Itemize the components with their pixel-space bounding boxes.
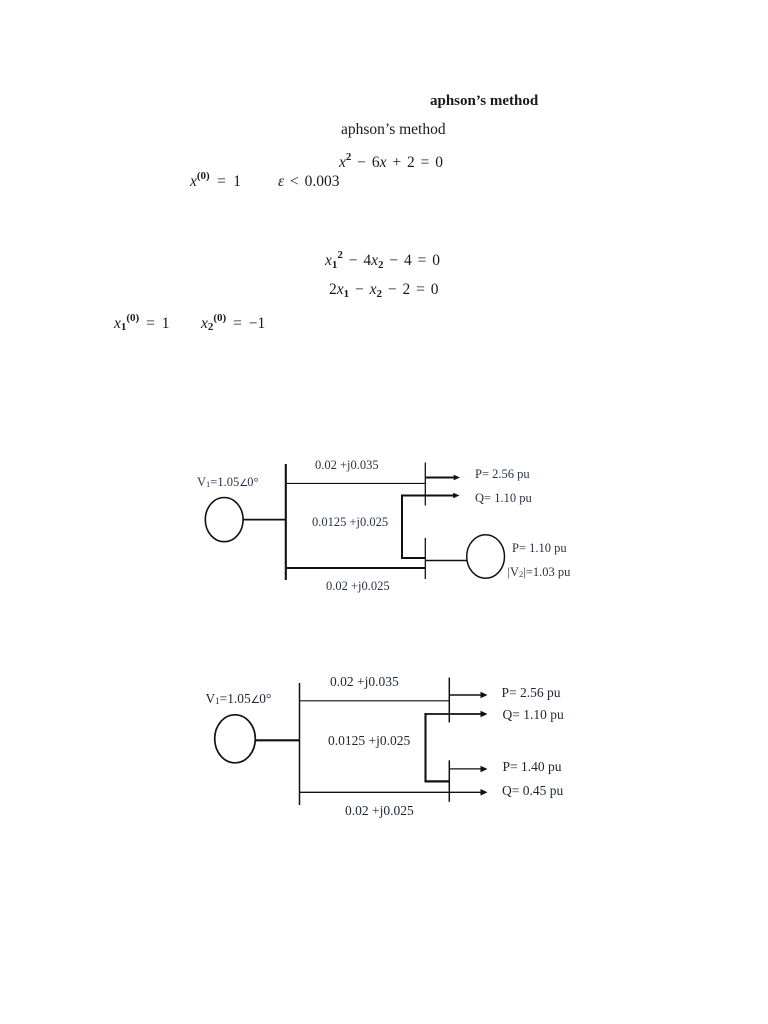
line 4-5 wire <box>299 700 449 702</box>
bus 3 <box>424 538 426 579</box>
initial condition x2^(0) = -1 <box>201 316 265 332</box>
label V1=1.05 angle 0 (diagram 1) <box>197 476 258 489</box>
heading bold: aphson's method <box>430 94 538 109</box>
bus 1 (slack bus) <box>285 464 287 580</box>
wire G1 to bus 1 <box>243 519 287 521</box>
label P= 1.10 pu (diagram 1) <box>512 542 567 555</box>
equation x1^2 - 4x2 - 4 = 0 <box>325 253 440 269</box>
line 2-3 wire (bracket) <box>401 495 454 560</box>
generator G1 circle <box>205 497 243 541</box>
wire G3 to bus 4 <box>255 739 300 741</box>
equation x^2 - 6x + 2 = 0 <box>339 155 443 171</box>
arrow Q load bus 5 <box>481 711 488 718</box>
label P= 2.56 pu (diagram 1) <box>475 468 530 481</box>
heading regular: aphson's method <box>341 122 446 138</box>
line 4-6 wire with arrow Q load bus 6 <box>300 789 488 796</box>
bus 4 (slack bus) <box>299 683 301 805</box>
arrow P load bus 2 <box>426 475 460 481</box>
label line 1-2 impedance 0.02 +j0.035 (diagram 1) <box>315 459 379 472</box>
initial condition x1^(0) = 1 <box>114 316 169 332</box>
wire bus 3 to generator G2 <box>426 560 468 562</box>
label line 5-6 impedance 0.0125 +j0.025 (diagram 2) <box>328 734 410 748</box>
bus 6 <box>448 760 450 802</box>
generator G3 circle <box>215 715 256 763</box>
label line 2-3 impedance 0.0125 +j0.025 (diagram 1) <box>312 516 388 529</box>
label Q= 1.10 pu (diagram 2) <box>503 708 564 722</box>
initial condition x^(0) = 1 <box>190 174 241 190</box>
equation 2x1 - x2 - 2 = 0 <box>329 282 439 298</box>
label Q= 0.45 pu (diagram 2) <box>502 784 563 798</box>
label V1=1.05 angle 0 (diagram 2) <box>206 692 272 706</box>
label P= 1.40 pu (diagram 2) <box>503 760 562 774</box>
label line 4-5 impedance 0.02 +j0.035 (diagram 2) <box>330 675 399 689</box>
arrow P load bus 6 <box>450 766 488 773</box>
bus 2 <box>424 463 426 506</box>
arrow P load bus 5 <box>450 692 488 699</box>
generator G2 circle <box>467 535 505 579</box>
arrow Q load bus 2 <box>453 493 459 499</box>
label line 4-6 impedance 0.02 +j0.025 (diagram 2) <box>345 804 414 818</box>
label line 1-3 impedance 0.02 +j0.025 (diagram 1) <box>326 580 390 593</box>
label P= 2.56 pu (diagram 2) <box>502 686 561 700</box>
line 1-3 wire <box>286 567 425 569</box>
tolerance epsilon < 0.003 <box>278 174 339 190</box>
line 5-6 wire (bracket) <box>425 713 481 783</box>
line 1-2 wire <box>286 482 425 484</box>
bus 5 <box>448 678 450 723</box>
label Q= 1.10 pu (diagram 1) <box>475 492 532 505</box>
label |V2|=1.03 pu (diagram 1) <box>508 566 571 579</box>
